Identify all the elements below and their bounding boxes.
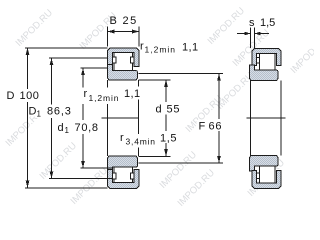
inner ring upper section (flange left) bbox=[108, 65, 138, 81]
svg-text:IMPOD.RU: IMPOD.RU bbox=[38, 140, 79, 181]
svg-text:r: r bbox=[84, 88, 88, 100]
cage bars upper bbox=[113, 57, 117, 63]
svg-text:100: 100 bbox=[20, 90, 40, 102]
svg-text:55: 55 bbox=[167, 104, 181, 116]
svg-text:r: r bbox=[120, 132, 124, 144]
inner ring lower section (right fig) bbox=[250, 156, 279, 172]
outer ring upper section (right fig) bbox=[252, 49, 281, 66]
r 3,4min (flange chamfers) bbox=[120, 134, 156, 148]
svg-text:IMPOD.RU: IMPOD.RU bbox=[289, 34, 314, 75]
svg-text:IMPOD.RU: IMPOD.RU bbox=[69, 165, 110, 206]
svg-text:1: 1 bbox=[65, 126, 70, 135]
roller upper (right fig) bbox=[260, 54, 276, 71]
svg-text:1,2min: 1,2min bbox=[145, 45, 177, 55]
bore face lines (left and right) bbox=[108, 80, 139, 156]
svg-text:s: s bbox=[249, 17, 255, 29]
svg-text:D: D bbox=[7, 90, 15, 102]
svg-text:70,8: 70,8 bbox=[75, 122, 99, 134]
svg-text:1,2min: 1,2min bbox=[89, 93, 120, 103]
svg-text:d: d bbox=[58, 122, 64, 134]
cage bars upper (right fig) bbox=[257, 58, 260, 64]
svg-text:1: 1 bbox=[37, 110, 42, 119]
r 1,2min 1,1 (middle, inner ring) bbox=[82, 88, 119, 105]
svg-text:r: r bbox=[140, 41, 144, 53]
svg-text:86,3: 86,3 bbox=[47, 106, 72, 118]
value 1,5 for r3,4 on d-line bbox=[160, 132, 179, 143]
svg-text:1,1: 1,1 bbox=[124, 88, 141, 100]
svg-text:66: 66 bbox=[209, 121, 223, 133]
svg-text:IMPOD.RU: IMPOD.RU bbox=[14, 7, 55, 48]
cage bars lower bbox=[113, 173, 117, 179]
svg-text:B: B bbox=[110, 15, 117, 27]
svg-text:F: F bbox=[199, 121, 206, 133]
B extension lines bbox=[108, 27, 140, 47]
outer ring lower section bbox=[108, 170, 140, 189]
svg-text:D: D bbox=[29, 106, 37, 118]
svg-text:d: d bbox=[156, 104, 162, 116]
roller lower bbox=[114, 167, 133, 183]
svg-text:1,1: 1,1 bbox=[182, 42, 199, 54]
roller lower (right fig) bbox=[260, 166, 276, 183]
center line bbox=[102, 117, 139, 119]
outer ring lower section (right fig) bbox=[252, 171, 281, 189]
svg-text:25: 25 bbox=[123, 15, 138, 27]
svg-text:1,5: 1,5 bbox=[260, 17, 275, 29]
svg-text:3,4min: 3,4min bbox=[126, 137, 156, 147]
cage bar lower (right fig) bbox=[257, 173, 260, 179]
svg-text:1,5: 1,5 bbox=[160, 133, 177, 145]
svg-text:IMPOD.RU: IMPOD.RU bbox=[206, 5, 247, 46]
bore face lines (right fig) bbox=[251, 81, 282, 156]
inner ring upper section shifted left (right fig) bbox=[250, 65, 279, 81]
outer ring upper section bbox=[108, 48, 140, 67]
B dimension line with arrows bbox=[108, 31, 140, 33]
inner ring lower section (flange left) bbox=[108, 156, 138, 172]
roller upper bbox=[114, 53, 133, 71]
center line (right fig) bbox=[247, 117, 286, 119]
